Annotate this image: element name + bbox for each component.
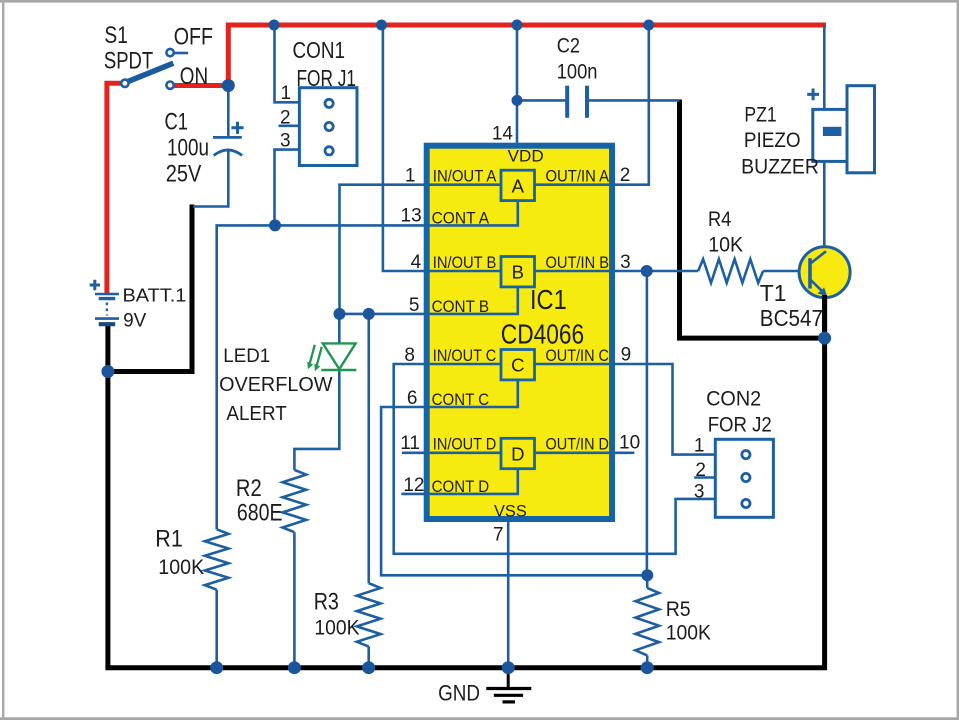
svg-text:VDD: VDD bbox=[508, 146, 544, 165]
svg-text:GND: GND bbox=[438, 680, 480, 705]
svg-text:25V: 25V bbox=[166, 161, 202, 188]
svg-text:R3: R3 bbox=[314, 589, 339, 616]
svg-text:FOR J2: FOR J2 bbox=[708, 413, 772, 437]
svg-text:2: 2 bbox=[695, 460, 706, 481]
svg-text:13: 13 bbox=[401, 206, 422, 227]
svg-text:11: 11 bbox=[400, 433, 420, 454]
svg-text:10K: 10K bbox=[708, 233, 743, 257]
svg-text:CONT C: CONT C bbox=[432, 390, 490, 409]
svg-text:C1: C1 bbox=[165, 109, 189, 136]
svg-text:T1: T1 bbox=[760, 280, 787, 306]
svg-text:CONT A: CONT A bbox=[432, 209, 490, 228]
svg-text:OUT/IN C: OUT/IN C bbox=[546, 346, 610, 365]
svg-text:4: 4 bbox=[411, 252, 422, 273]
svg-text:BC547: BC547 bbox=[760, 305, 823, 331]
svg-text:R4: R4 bbox=[708, 207, 731, 231]
svg-text:2: 2 bbox=[620, 165, 631, 186]
svg-text:3: 3 bbox=[620, 252, 631, 273]
svg-text:1: 1 bbox=[405, 166, 416, 187]
svg-text:14: 14 bbox=[492, 124, 514, 145]
svg-text:1: 1 bbox=[281, 83, 292, 104]
svg-text:SPDT: SPDT bbox=[104, 47, 154, 74]
svg-text:C: C bbox=[511, 355, 524, 376]
svg-text:680E: 680E bbox=[237, 500, 283, 527]
svg-text:ON: ON bbox=[180, 63, 208, 90]
svg-text:IC1: IC1 bbox=[530, 284, 567, 315]
svg-text:PZ1: PZ1 bbox=[744, 103, 776, 127]
svg-text:IN/OUT B: IN/OUT B bbox=[433, 253, 497, 272]
svg-text:10: 10 bbox=[619, 433, 640, 454]
svg-text:100n: 100n bbox=[557, 60, 598, 83]
svg-text:PIEZO: PIEZO bbox=[744, 128, 801, 152]
svg-text:5: 5 bbox=[409, 295, 420, 316]
svg-text:C2: C2 bbox=[557, 35, 580, 58]
svg-text:OVERFLOW: OVERFLOW bbox=[219, 373, 333, 396]
svg-text:BATT.1: BATT.1 bbox=[123, 285, 187, 305]
svg-text:CONT D: CONT D bbox=[432, 477, 490, 496]
svg-text:D: D bbox=[511, 443, 524, 464]
svg-text:IN/OUT A: IN/OUT A bbox=[433, 167, 497, 186]
svg-text:B: B bbox=[512, 262, 524, 283]
svg-text:IN/OUT D: IN/OUT D bbox=[433, 435, 497, 454]
svg-text:R5: R5 bbox=[666, 597, 691, 621]
svg-text:100u: 100u bbox=[167, 135, 209, 162]
svg-text:7: 7 bbox=[493, 525, 504, 546]
svg-text:A: A bbox=[512, 175, 525, 196]
svg-text:9V: 9V bbox=[123, 310, 147, 331]
svg-text:CON1: CON1 bbox=[293, 37, 346, 63]
svg-text:100K: 100K bbox=[158, 555, 204, 579]
svg-text:2: 2 bbox=[280, 108, 291, 129]
svg-text:FOR J1: FOR J1 bbox=[297, 65, 357, 91]
svg-text:6: 6 bbox=[407, 388, 418, 409]
svg-text:12: 12 bbox=[403, 475, 424, 496]
svg-text:S1: S1 bbox=[104, 22, 128, 49]
svg-text:BUZZER: BUZZER bbox=[741, 154, 819, 178]
svg-text:1: 1 bbox=[694, 436, 705, 457]
svg-text:R2: R2 bbox=[236, 475, 262, 502]
svg-text:100K: 100K bbox=[666, 621, 712, 645]
svg-text:OUT/IN A: OUT/IN A bbox=[546, 167, 610, 186]
svg-text:CONT B: CONT B bbox=[432, 297, 490, 316]
svg-text:9: 9 bbox=[621, 344, 632, 365]
svg-text:OUT/IN B: OUT/IN B bbox=[546, 253, 610, 272]
svg-text:3: 3 bbox=[694, 481, 705, 502]
svg-text:LED1: LED1 bbox=[223, 346, 270, 367]
svg-text:CON2: CON2 bbox=[706, 387, 761, 411]
svg-text:ALERT: ALERT bbox=[226, 403, 286, 425]
svg-text:VSS: VSS bbox=[494, 501, 527, 520]
svg-text:OFF: OFF bbox=[174, 23, 213, 50]
svg-text:8: 8 bbox=[404, 345, 415, 366]
svg-text:OUT/IN D: OUT/IN D bbox=[546, 435, 610, 454]
svg-text:CD4066: CD4066 bbox=[501, 318, 584, 349]
svg-text:3: 3 bbox=[280, 131, 291, 152]
svg-text:R1: R1 bbox=[155, 526, 183, 553]
svg-text:100K: 100K bbox=[314, 616, 360, 640]
svg-text:IN/OUT C: IN/OUT C bbox=[433, 346, 497, 365]
